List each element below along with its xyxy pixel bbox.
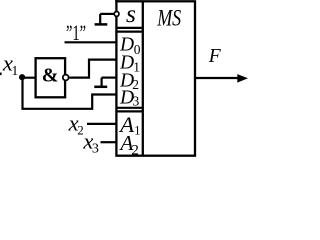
svg-text:1: 1 xyxy=(134,124,140,138)
svg-text:MS: MS xyxy=(156,6,181,31)
svg-text:s: s xyxy=(126,0,136,28)
svg-text:”1”: ”1” xyxy=(66,20,86,45)
svg-text:&: & xyxy=(42,64,59,86)
svg-text:3: 3 xyxy=(133,93,140,108)
svg-text:3: 3 xyxy=(92,142,99,157)
svg-text:1: 1 xyxy=(12,63,19,78)
svg-text:2: 2 xyxy=(131,142,139,158)
svg-text:0: 0 xyxy=(134,42,141,57)
svg-text:1: 1 xyxy=(133,59,140,74)
svg-text:F: F xyxy=(208,46,222,67)
